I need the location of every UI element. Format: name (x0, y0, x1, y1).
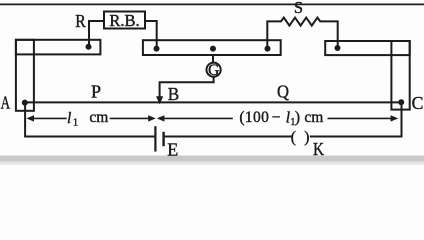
dimension line 100-l1 left segment (163, 117, 233, 119)
wire G to jockey B (160, 77, 214, 96)
svg-text:R: R (75, 11, 86, 31)
middle strip left terminal dot (154, 46, 160, 52)
wire battery to key (165, 136, 291, 138)
wire R.B. left lead (89, 21, 104, 47)
wire R.B. right lead (145, 21, 157, 48)
left copper strip top bar (16, 40, 101, 55)
dimension line left segment with arrow (32, 117, 66, 119)
battery short plate (162, 133, 164, 145)
svg-text:E: E (167, 140, 178, 160)
svg-text:−: − (272, 109, 281, 126)
svg-text:(: ( (291, 129, 296, 146)
svg-text:S: S (294, 0, 303, 17)
dimension line 100-l1 right segment (328, 117, 392, 119)
wire below A to battery loop (25, 104, 154, 137)
svg-text:Q: Q (277, 82, 289, 102)
top border line (0, 3, 424, 5)
svg-text:B: B (168, 84, 180, 104)
battery long plate (154, 127, 156, 150)
galvanometer G circle (207, 63, 221, 77)
terminal dot on left strip (86, 44, 92, 50)
svg-text:(100: (100 (239, 109, 269, 126)
middle strip right terminal dot (265, 46, 271, 52)
middle strip centre terminal dot (210, 46, 216, 52)
right copper strip vertical arm (391, 41, 409, 110)
svg-text:): ) (304, 129, 309, 146)
wire key to below C (311, 104, 402, 137)
left copper strip vertical arm (16, 40, 34, 111)
dimension arrowhead left end (26, 115, 34, 121)
svg-text:G: G (208, 62, 219, 79)
bottom gray band (0, 156, 424, 162)
resistance box R.B. (104, 12, 145, 29)
bridge wire A to C (25, 101, 401, 103)
dimension arrowhead 100-l1 left (points left) (157, 115, 165, 121)
terminal dot C (398, 99, 404, 105)
svg-text:cm: cm (89, 109, 108, 126)
dimension arrowhead l1 right (points right) (148, 115, 156, 121)
svg-text:): ) (295, 109, 300, 126)
dimension arrowhead 100-l1 right end (391, 115, 399, 121)
resistor S leads and zigzag (267, 18, 337, 49)
dimension line l1 right segment (111, 117, 151, 119)
svg-text:P: P (91, 82, 101, 102)
svg-text:A: A (1, 93, 11, 113)
svg-text:cm: cm (304, 109, 323, 126)
jockey arrowhead at B (156, 96, 163, 104)
terminal dot on right strip (335, 45, 341, 51)
svg-text:l: l (67, 110, 71, 127)
galvanometer wire from strip (212, 55, 214, 62)
svg-text:K: K (313, 139, 324, 159)
svg-text:C: C (412, 93, 424, 113)
middle copper strip (143, 40, 281, 55)
right copper strip top bar (325, 41, 410, 55)
svg-text:R.B.: R.B. (109, 11, 139, 30)
terminal dot A (22, 100, 28, 106)
svg-text:1: 1 (73, 117, 78, 128)
